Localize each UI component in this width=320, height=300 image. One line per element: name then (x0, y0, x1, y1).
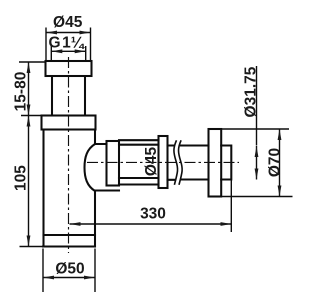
svg-text:105: 105 (13, 165, 30, 191)
svg-text:15-80: 15-80 (13, 72, 30, 112)
svg-text:Ø45: Ø45 (53, 14, 83, 31)
svg-text:Ø31.75: Ø31.75 (243, 66, 260, 117)
svg-text:330: 330 (140, 206, 166, 223)
svg-text:Ø45: Ø45 (143, 146, 160, 176)
svg-text:Ø50: Ø50 (55, 261, 84, 278)
svg-text:Ø70: Ø70 (267, 148, 284, 177)
svg-text:G1¼: G1¼ (49, 35, 85, 52)
